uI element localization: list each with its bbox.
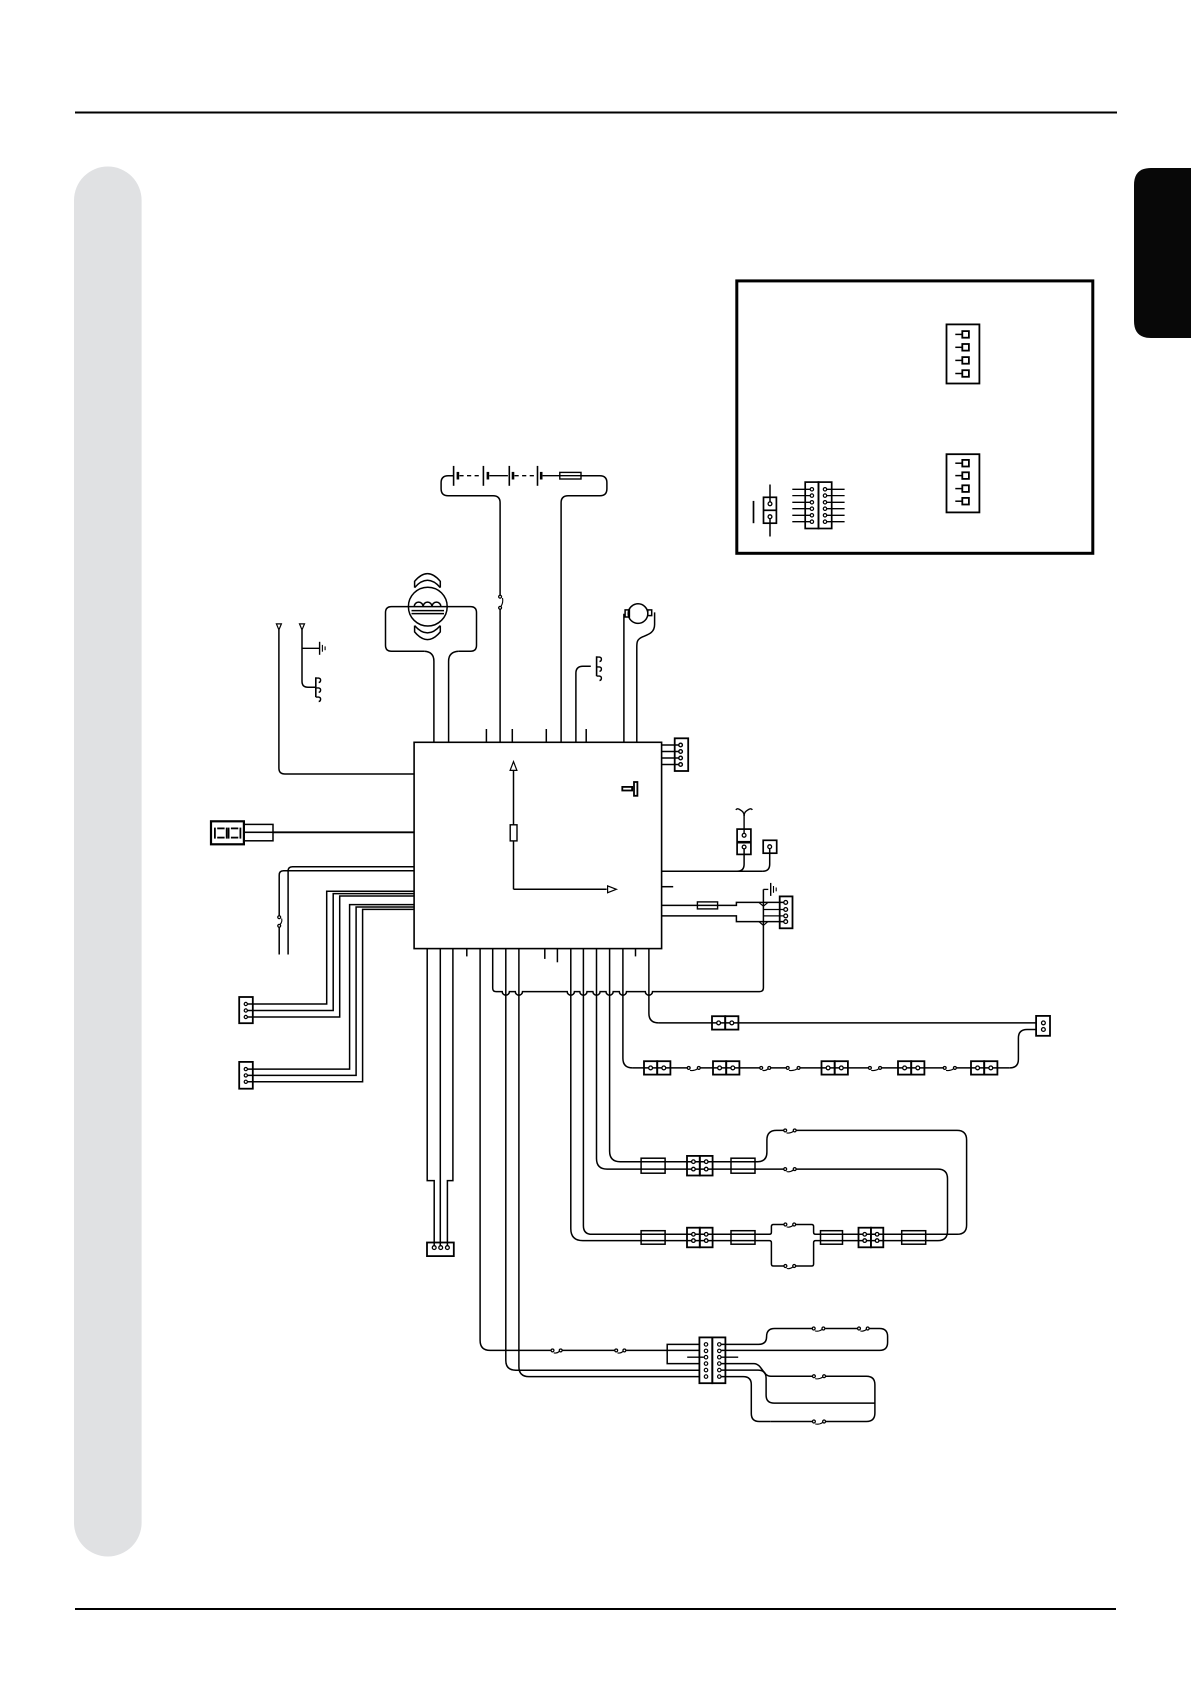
starter motor SM circle bbox=[628, 604, 648, 624]
disconnect loop3 bbox=[812, 1419, 826, 1424]
wire sensor bus bbox=[662, 870, 763, 872]
battery link solid 1 bbox=[489, 475, 508, 477]
disconnect loop1 b bbox=[857, 1326, 869, 1331]
ground G1 (antenna) bbox=[319, 642, 321, 655]
jumper bracket rows 1-4 bbox=[667, 1344, 699, 1363]
wire CN18 lead 2 bbox=[439, 949, 441, 1246]
disconnect on dead-end lead bbox=[277, 916, 282, 928]
fork terminal T2 bbox=[596, 656, 598, 676]
starter brush right bbox=[648, 610, 652, 616]
disconnect upper run 2 bbox=[784, 1167, 797, 1172]
antenna A1 bbox=[276, 624, 281, 630]
fuse F2 bbox=[697, 902, 717, 909]
stub row3 right bbox=[721, 1356, 738, 1358]
wire CN18 lead 3 bbox=[447, 949, 453, 1246]
connector CN8 (chain pair 1) bbox=[644, 1061, 657, 1074]
fuse F0 (inset two-cell component) bbox=[769, 485, 771, 503]
disconnect on battery wire bbox=[498, 595, 503, 610]
wire group1 lead 2 bbox=[248, 894, 415, 1011]
wire instrument to ECU bbox=[273, 831, 414, 833]
ECU inner arrow right bbox=[514, 888, 607, 890]
disconnect bulge top bbox=[784, 1222, 796, 1227]
wire loop inner bbox=[571, 949, 948, 1266]
wire battery loop right bbox=[561, 476, 607, 507]
wire fused lead B bbox=[662, 916, 784, 922]
fork terminal T1 bbox=[315, 677, 317, 697]
wire pin3 lead bbox=[763, 915, 783, 917]
disconnect loop2 bbox=[812, 1374, 826, 1379]
connector CN6 (left lower 3-pin) bbox=[239, 1062, 253, 1089]
ECU bottom pin stub 4 bbox=[635, 949, 637, 957]
wire antenna A2 ground branch bbox=[302, 647, 320, 649]
ECU main box bbox=[414, 742, 661, 948]
disconnect chain 4 bbox=[868, 1066, 882, 1071]
wire brake lead bbox=[649, 949, 659, 1023]
top rule bbox=[75, 112, 1117, 114]
disconnect chain 3 bbox=[786, 1066, 800, 1071]
disconnect chain 1 bbox=[687, 1066, 701, 1071]
wire antenna A2 drop bbox=[302, 630, 316, 688]
wire ground riser bbox=[760, 889, 764, 991]
wire row6 feed bbox=[519, 949, 700, 1377]
ECU inner component bbox=[510, 825, 517, 841]
disconnect row2 feed 1 bbox=[551, 1348, 563, 1353]
battery link dashed 1 bbox=[459, 475, 482, 477]
wire row2 feed bbox=[480, 949, 699, 1351]
stub row3 left bbox=[687, 1356, 704, 1358]
wire starter left lead bbox=[623, 614, 625, 743]
connector CN19 (main 12-pin) bbox=[699, 1337, 712, 1383]
connector CN13 (brake pair) bbox=[712, 1016, 725, 1029]
wire loop R4 bbox=[721, 1364, 875, 1422]
fuse F4 bbox=[731, 1158, 755, 1173]
fuse F1 (battery main fuse) bbox=[560, 472, 581, 479]
wire chain run bbox=[633, 1067, 1010, 1069]
ECU right stub bbox=[662, 886, 674, 888]
wire group2 lead 2 bbox=[248, 907, 415, 1075]
starter brush left bbox=[625, 610, 629, 617]
bottom rule bbox=[75, 1608, 1116, 1610]
antenna A2 bbox=[300, 624, 305, 630]
switch S1 (two-cell) bbox=[737, 829, 751, 854]
ground G2 bbox=[763, 888, 768, 890]
wire pin2 lead bbox=[763, 909, 783, 911]
disconnect chain 5 bbox=[943, 1066, 957, 1071]
disconnect loop1 a bbox=[812, 1326, 825, 1331]
inset terminal bar bbox=[753, 501, 755, 523]
fork terminal T3 (Y) bbox=[743, 815, 745, 834]
wire group1 lead 1 bbox=[248, 891, 415, 1004]
ECU bottom pin stub 2 bbox=[544, 949, 546, 959]
right black index tab bbox=[1134, 168, 1191, 338]
fuse F8 bbox=[902, 1231, 926, 1245]
connector CN10 (chain pair 3) bbox=[822, 1061, 835, 1074]
magneto lower magnet arcs bbox=[415, 626, 441, 640]
ECU top pin stub 1 bbox=[485, 729, 487, 742]
ECU bottom pin stub 1 bbox=[466, 949, 468, 957]
left grey sidebar bbox=[74, 167, 142, 1557]
wire group2 lead 1 bbox=[248, 905, 415, 1070]
wire fork to ECU bbox=[576, 666, 591, 742]
wire magneto lead left bbox=[424, 651, 434, 742]
fuse F7 bbox=[821, 1231, 843, 1245]
connector CN2 (inset lower 4-pin) bbox=[947, 454, 980, 512]
connector CN11 (chain pair 4) bbox=[898, 1061, 911, 1074]
wire dead-end lead 1 bbox=[288, 867, 414, 955]
wire switch S2 lead bbox=[763, 849, 770, 872]
connector CN9 (chain pair 2) bbox=[713, 1061, 726, 1074]
connector CN1 (inset upper 4-pin) bbox=[947, 324, 980, 383]
wire brake run bbox=[659, 1022, 1037, 1024]
wire antenna A1 to ECU bbox=[279, 630, 414, 774]
wire loop R1-R2 bbox=[721, 1329, 887, 1351]
wire row5 feed bbox=[506, 949, 700, 1371]
wire magneto lead right bbox=[449, 651, 459, 742]
wire tail lead bbox=[623, 949, 633, 1068]
connector CN4 (ECU right 4-pin) bbox=[675, 738, 689, 771]
ECU key symbol bbox=[622, 787, 632, 791]
magneto coil winding bbox=[414, 602, 441, 606]
wire loop R6 bbox=[721, 1377, 771, 1422]
wire CN18 lead 1 bbox=[427, 949, 434, 1246]
fuse F5 bbox=[641, 1231, 665, 1245]
wire chain rise bbox=[1010, 1030, 1036, 1068]
connector CN12 (chain pair 5) bbox=[971, 1061, 984, 1074]
switch S2 (single-cell) bbox=[763, 840, 777, 853]
magneto rotor circle bbox=[408, 587, 447, 626]
wire battery negative drop bbox=[560, 507, 562, 742]
wire battery loop left bbox=[441, 476, 500, 507]
disconnect upper run 1 bbox=[784, 1128, 797, 1133]
magneto M1 body bbox=[386, 607, 477, 652]
wire loop outer bbox=[583, 949, 966, 1235]
wire group1 lead 3 bbox=[248, 896, 415, 1017]
ECU bottom pin stub 3 bbox=[556, 949, 558, 963]
connector CN16 (2x2) bbox=[687, 1228, 700, 1248]
fuse F6 bbox=[731, 1231, 755, 1245]
connector CN3 (inset 12-pin pair) bbox=[805, 482, 818, 528]
ECU top pin stub 2 bbox=[511, 729, 513, 742]
wire starter right lead bbox=[637, 612, 655, 742]
splice V1 bbox=[759, 902, 768, 906]
connector CN18 (bottom 3-pin) bbox=[427, 1243, 454, 1257]
magneto core lines bbox=[412, 610, 445, 612]
battery link solid 2 bbox=[543, 475, 600, 477]
connector CN14 (far right 2-pin) bbox=[1036, 1016, 1050, 1036]
connector CN7 (right 4-pin) bbox=[780, 896, 793, 928]
wire loop R5 bbox=[721, 1370, 875, 1403]
ECU inner arrow up bbox=[513, 770, 515, 889]
connector CN15 (2x2) bbox=[687, 1156, 700, 1176]
wire switch S1 lead bbox=[737, 849, 744, 871]
instrument plug bbox=[244, 824, 273, 832]
magneto upper magnet arcs bbox=[415, 574, 441, 588]
ECU top pin stub 3 bbox=[545, 729, 547, 742]
connector CN17 (2x2) bbox=[859, 1228, 871, 1248]
connector CN5 (left upper 3-pin) bbox=[239, 997, 253, 1023]
instrument display D1 bbox=[211, 821, 244, 844]
disconnect bulge bottom bbox=[784, 1264, 796, 1269]
battery B1 plates bbox=[453, 466, 455, 486]
disconnect row2 feed 2 bbox=[615, 1348, 627, 1353]
wire fused lead A bbox=[662, 902, 784, 905]
inset detail box bbox=[737, 281, 1093, 553]
disconnect chain 2 bbox=[760, 1066, 772, 1071]
splice V2 bbox=[759, 922, 768, 926]
ECU top pin stub 4 bbox=[585, 729, 587, 742]
fuse F3 bbox=[641, 1158, 665, 1173]
wire battery positive drop bbox=[499, 507, 501, 742]
wire bus bbox=[493, 949, 760, 996]
wire dead-end lead 2 bbox=[279, 871, 414, 955]
wire group2 lead 3 bbox=[248, 909, 415, 1081]
battery link dashed 2 bbox=[515, 475, 537, 477]
